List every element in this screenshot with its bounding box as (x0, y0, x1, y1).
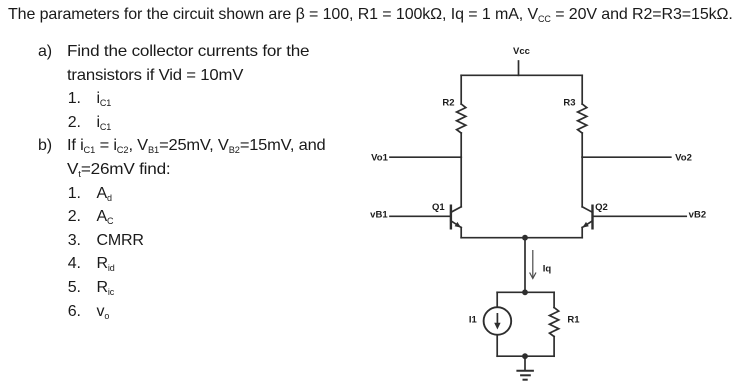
resistor R3 (563, 75, 586, 157)
svg-text:Q1: Q1 (432, 202, 445, 213)
svg-text:Vcc: Vcc (513, 46, 530, 57)
svg-text:vB1: vB1 (370, 210, 388, 221)
resistor R1 (550, 292, 581, 356)
svg-text:Vo1: Vo1 (371, 153, 388, 164)
wire top rail (461, 74, 582, 76)
wire emitter bus (461, 237, 582, 239)
power Vcc (513, 46, 530, 75)
problem list (0, 40, 1, 323)
node vB1 (370, 210, 450, 221)
svg-text:Iq: Iq (543, 264, 552, 275)
wire bottom rail (497, 355, 554, 357)
svg-text:R3: R3 (563, 98, 575, 109)
svg-text:vB2: vB2 (689, 210, 706, 221)
svg-text:Vo2: Vo2 (675, 153, 692, 164)
node Vo1 (371, 153, 461, 164)
junction ground node (522, 353, 528, 359)
svg-text:Q2: Q2 (595, 202, 608, 213)
svg-text:R1: R1 (567, 315, 580, 326)
ground (516, 356, 534, 380)
node vB2 (594, 210, 706, 221)
wire bias rail (497, 291, 554, 293)
svg-text:I1: I1 (469, 315, 478, 326)
transistor Q1 (432, 157, 461, 238)
resistor R2 (442, 75, 465, 157)
transistor Q2 (582, 157, 608, 238)
junction tail node (522, 289, 528, 295)
junction emitters (522, 235, 528, 241)
wire tail (524, 238, 526, 293)
current arrow Iq (530, 250, 552, 279)
node Vo2 (582, 153, 692, 164)
header text (8, 6, 733, 24)
svg-text:R2: R2 (442, 98, 454, 109)
current source I1 (469, 292, 511, 356)
